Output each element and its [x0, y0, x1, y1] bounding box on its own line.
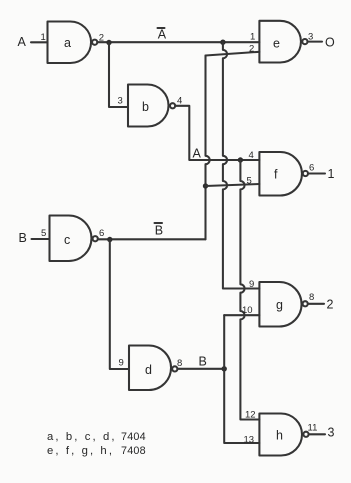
pin 2 (gate e) — [249, 44, 254, 55]
pin 3 (gate e) — [308, 32, 313, 43]
svg-text:a: a — [64, 36, 71, 50]
svg-text:g: g — [276, 298, 283, 312]
pin 6 (gate c) — [99, 228, 104, 239]
bubble a output — [92, 40, 97, 45]
svg-text:6: 6 — [99, 228, 104, 239]
pin 1 (gate e) — [250, 32, 255, 43]
pin 11 (gate h) — [308, 423, 318, 434]
pin 8 (gate g) — [309, 292, 314, 303]
svg-text:6: 6 — [309, 163, 314, 174]
node Bbar junction at c output — [107, 237, 112, 242]
node A junction — [238, 157, 243, 162]
input label A — [18, 35, 27, 49]
pin 9 (gate d) — [119, 358, 124, 369]
svg-text:O: O — [325, 36, 335, 50]
pin 5 (gate c) — [41, 228, 46, 239]
svg-text:e: e — [273, 37, 280, 51]
label output 2 — [327, 298, 334, 312]
svg-text:5: 5 — [41, 228, 46, 239]
pin 6 (gate f) — [309, 163, 314, 174]
svg-text:1: 1 — [250, 32, 255, 43]
wire e output — [308, 41, 323, 43]
svg-text:7404: 7404 — [121, 431, 146, 443]
pin 4 (gate b) — [177, 96, 182, 107]
wire B from d output to junction — [177, 368, 224, 370]
bubble b output — [170, 103, 175, 108]
svg-text:3: 3 — [328, 426, 335, 440]
input label B — [19, 231, 27, 245]
label B (signal) — [199, 355, 207, 369]
svg-text:A: A — [18, 35, 27, 49]
bubble h output — [303, 432, 308, 437]
svg-text:7408: 7408 — [121, 445, 146, 457]
wire h output — [309, 433, 325, 435]
pin 12 (gate h) — [245, 410, 256, 421]
label output 3 — [328, 426, 335, 440]
pin 2 (gate a) — [99, 33, 104, 44]
pin 1 (gate a) — [41, 32, 46, 43]
svg-text:1: 1 — [328, 167, 335, 181]
svg-text:B: B — [199, 355, 207, 369]
AND gate f — [259, 152, 302, 196]
node Abar junction at a output — [106, 40, 111, 45]
label Abar — [158, 28, 167, 42]
label Bbar — [155, 223, 164, 238]
svg-text:12: 12 — [245, 410, 256, 421]
pin 5 (gate f) — [247, 176, 252, 187]
pin 9 (gate g) — [249, 279, 254, 290]
svg-text:5: 5 — [247, 176, 252, 187]
bubble d output — [172, 366, 177, 371]
svg-text:e, f, g, h,: e, f, g, h, — [47, 445, 114, 457]
wire Bbar from c to vertical riser — [98, 238, 206, 240]
svg-text:11: 11 — [308, 423, 318, 434]
pin 8 (gate d) — [177, 358, 182, 369]
pin 10 (gate g) — [242, 305, 253, 316]
bubble c output — [93, 236, 98, 241]
wire input A — [31, 41, 48, 43]
pin 3 (gate b) — [118, 96, 123, 107]
svg-text:9: 9 — [119, 358, 124, 369]
svg-text:b: b — [142, 100, 149, 114]
svg-text:10: 10 — [242, 305, 253, 316]
wire f output — [308, 172, 325, 174]
inverter a — [48, 22, 92, 64]
svg-text:8: 8 — [309, 292, 314, 303]
AND gate g — [259, 282, 301, 327]
svg-text:B: B — [155, 224, 163, 238]
label output 0 — [325, 36, 335, 50]
svg-text:h: h — [276, 429, 283, 443]
pin 13 (gate h) — [244, 435, 255, 446]
bubble g output — [303, 301, 308, 306]
wire A from b output to f pin 4 — [175, 106, 259, 160]
svg-text:A: A — [193, 147, 202, 161]
inverter d — [129, 346, 171, 391]
wire Bbar riser (vertical x=205.5) with hop over A wire — [206, 56, 210, 240]
svg-text:2: 2 — [327, 298, 334, 312]
wire Abar from a to e pin 1 — [97, 41, 259, 43]
wire g pin 10 from B riser — [224, 314, 259, 316]
label A (signal) — [193, 147, 202, 161]
svg-text:d: d — [145, 363, 152, 377]
svg-text:B: B — [19, 231, 27, 245]
wire f pin 5 from Bbar riser — [206, 184, 260, 186]
svg-text:c: c — [64, 233, 70, 247]
wire A riser (vertical x=240.4) with hops, to h pin 12 — [240, 160, 259, 420]
caption line 1: a,b,c,d 7404 — [47, 431, 146, 443]
node Bbar riser junction to f pin 5 — [203, 183, 208, 188]
svg-text:4: 4 — [249, 150, 254, 161]
node Abar junction over e wire — [220, 40, 225, 45]
svg-text:3: 3 — [118, 96, 123, 107]
node B junction — [222, 366, 227, 371]
AND gate h — [259, 414, 302, 456]
wire Abar riser (vertical x=222.9) with hops, to g pin 9 — [223, 42, 260, 288]
pin 4 (gate f) — [249, 150, 254, 161]
svg-text:f: f — [274, 168, 278, 182]
svg-text:2: 2 — [249, 44, 254, 55]
inverter b — [128, 85, 169, 127]
svg-text:9: 9 — [249, 279, 254, 290]
inverter c — [50, 216, 92, 262]
wire g output — [308, 303, 324, 305]
bubble f output — [303, 171, 308, 176]
svg-text:a, b, c, d,: a, b, c, d, — [47, 431, 117, 443]
AND gate e — [259, 21, 301, 63]
wire e pin 2 from Bbar riser — [206, 52, 260, 56]
svg-text:A: A — [158, 28, 167, 42]
wire c output down to d input — [110, 240, 129, 370]
caption line 2: e,f,g,h 7408 — [47, 445, 146, 457]
wire input B — [32, 238, 50, 240]
label output 1 — [328, 167, 335, 181]
svg-text:1: 1 — [41, 32, 46, 43]
svg-text:8: 8 — [177, 358, 182, 369]
wire B riser (vertical x=224.2) to h pin 13 — [224, 315, 259, 443]
svg-text:13: 13 — [244, 435, 255, 446]
bubble e output — [302, 39, 307, 44]
wire a output down to b input — [109, 43, 128, 108]
